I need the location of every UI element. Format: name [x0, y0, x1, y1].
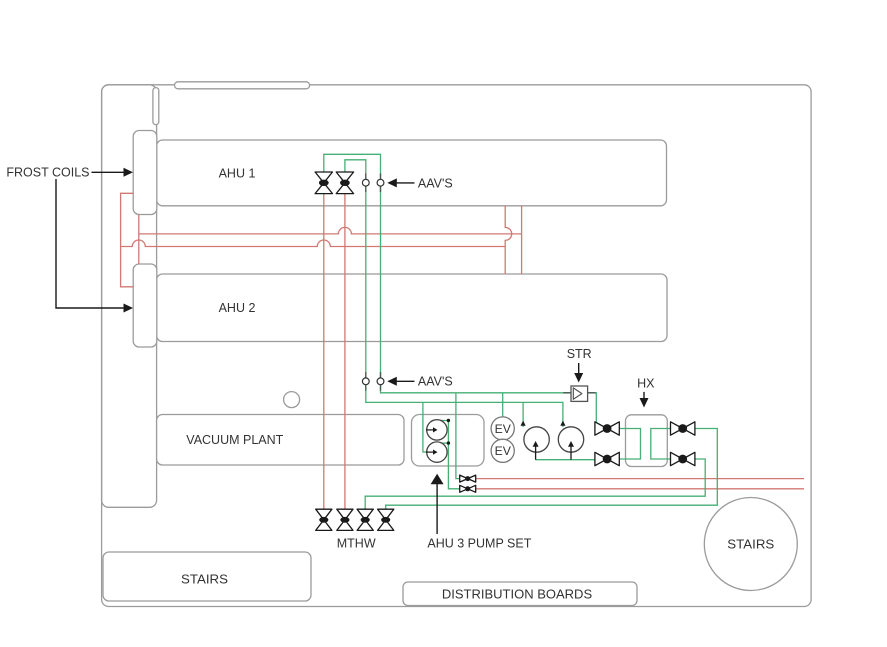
svg-text:AAV'S: AAV'S [418, 176, 453, 190]
svg-text:VACUUM PLANT: VACUUM PLANT [186, 433, 283, 447]
svg-text:AHU 1: AHU 1 [219, 166, 256, 180]
svg-text:EV: EV [495, 422, 512, 436]
svg-text:STAIRS: STAIRS [181, 572, 228, 587]
svg-text:HX: HX [637, 376, 655, 390]
svg-text:FROST COILS: FROST COILS [6, 166, 89, 180]
svg-text:EV: EV [495, 444, 512, 458]
svg-text:AHU 3 PUMP SET: AHU 3 PUMP SET [427, 536, 531, 550]
svg-text:STR: STR [567, 347, 592, 361]
svg-text:MTHW: MTHW [337, 536, 376, 550]
svg-text:AHU 2: AHU 2 [219, 301, 256, 315]
svg-text:AAV'S: AAV'S [418, 375, 453, 389]
svg-text:STAIRS: STAIRS [727, 537, 774, 552]
svg-text:DISTRIBUTION BOARDS: DISTRIBUTION BOARDS [442, 586, 593, 601]
